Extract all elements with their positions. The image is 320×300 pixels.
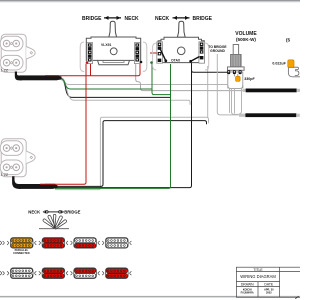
legend label NECK-BRIDGE bbox=[28, 210, 80, 215]
svg-text:OTAX: OTAX bbox=[171, 59, 181, 63]
wire gray bridge shield loop with hook bbox=[55, 117, 209, 189]
legend switch position fan bbox=[39, 214, 69, 229]
wire red stub switch2 left middle bbox=[150, 52, 158, 54]
potentiometer VR2 tone lug plate (clipped at edge) bbox=[286, 38, 299, 76]
wire gray switch1 zigzag to cable bar1 bbox=[136, 64, 246, 91]
legend pickup icon row1 x73 bbox=[71, 238, 100, 249]
svg-text:CONNECTED: CONNECTED bbox=[13, 251, 30, 255]
wire green switch2 down left branch bbox=[152, 63, 171, 95]
svg-text:VLX91: VLX91 bbox=[101, 43, 111, 47]
svg-text:1·ZZ: 1·ZZ bbox=[1, 173, 9, 177]
legend pickup icon row1 x10 bbox=[7, 238, 36, 256]
svg-text:DRAWN: DRAWN bbox=[241, 282, 254, 286]
wire black switch2 to pot lug1 bbox=[192, 70, 229, 72]
switch U1 mounting wings bbox=[80, 42, 147, 72]
svg-text:330pF: 330pF bbox=[244, 77, 255, 81]
label switch2 NECK-BRIDGE bbox=[155, 16, 213, 22]
switch U2 right terminal strip bbox=[199, 42, 205, 63]
top border frame line bbox=[0, 0, 300, 2]
switch U2 OTAX lever bbox=[177, 21, 185, 37]
label switch1 BRIDGE-NECK bbox=[82, 16, 139, 22]
switch U1 VLX91 lever bbox=[109, 21, 117, 37]
svg-text:NECK: NECK bbox=[125, 16, 140, 22]
cable bridge pickup bbox=[12, 176, 57, 189]
wire red jumper switch1 left bbox=[90, 64, 92, 76]
svg-text:(500K-W): (500K-W) bbox=[236, 37, 256, 42]
title block table bbox=[236, 267, 306, 297]
node dots switch terminals bbox=[86, 61, 153, 64]
svg-text:FUJIWARA: FUJIWARA bbox=[241, 292, 254, 295]
svg-text:1·ZZ: 1·ZZ bbox=[1, 69, 9, 73]
title block text bbox=[240, 268, 276, 295]
svg-text:BRIDGE: BRIDGE bbox=[64, 210, 80, 215]
wire red switch1 left to bridge cable bbox=[45, 64, 86, 185]
switch U2 mounting wings bbox=[153, 43, 209, 70]
label volume bbox=[235, 31, 257, 42]
svg-text:NECK: NECK bbox=[28, 210, 40, 215]
switch U1 VLX91 body bbox=[86, 37, 140, 65]
cable shielded bar1 bbox=[242, 89, 300, 93]
cable shielded bar2 bbox=[239, 113, 300, 117]
wire gray neck shield to pot can bbox=[59, 78, 227, 85]
svg-text:BRIDGE: BRIDGE bbox=[82, 16, 102, 22]
switch U1 left terminal strip bbox=[87, 43, 93, 64]
switch U2 OTAX body bbox=[158, 37, 204, 62]
wire black bridge to switch2 terminal bbox=[55, 63, 192, 188]
svg-text:BRIDGE: BRIDGE bbox=[193, 16, 213, 22]
wire green neck to switch2 junction bbox=[59, 78, 152, 89]
switch U1 right terminal strip bbox=[134, 43, 140, 64]
wire red neck to switch1 right terminal bbox=[45, 63, 140, 75]
svg-text:(5: (5 bbox=[286, 38, 291, 43]
legend pickup icon row2 x10 bbox=[7, 268, 36, 279]
svg-text:2003: 2003 bbox=[266, 292, 272, 295]
legend pickup icon row2 x42 bbox=[39, 268, 68, 279]
label to bridge ground bbox=[208, 45, 227, 53]
wire pot can leads to cable bar2 bbox=[230, 88, 247, 114]
svg-text:0.022uF: 0.022uF bbox=[272, 61, 286, 65]
wire to-bridge-ground down to cable bar2 bbox=[217, 54, 238, 115]
svg-text:DATE: DATE bbox=[264, 282, 274, 286]
capacitor C1 330pF bbox=[234, 74, 255, 81]
switch U2 right contact lever bbox=[189, 57, 199, 63]
legend pickup icon row1 col1 (clipped) bbox=[0, 241, 4, 245]
svg-text:GROUND: GROUND bbox=[210, 49, 225, 53]
switch U2 left terminal strip bbox=[157, 42, 163, 63]
legend pickup icon row2 col1 (clipped) bbox=[0, 271, 4, 275]
potentiometer VR1 volume bbox=[227, 45, 244, 89]
svg-text:TITLE: TITLE bbox=[253, 268, 263, 272]
wire black neck to green junction bbox=[59, 78, 170, 97]
legend pickup icon row2 x73 bbox=[71, 268, 100, 279]
pickup bridge bbox=[0, 139, 35, 177]
cable neck pickup bbox=[15, 72, 62, 81]
legend pickup icon row1 x42 bbox=[39, 238, 68, 249]
svg-text:WIRING DIAGRAM: WIRING DIAGRAM bbox=[240, 274, 276, 279]
legend pickup icon row2 x105 bbox=[102, 268, 131, 279]
wire gray switch2 wing down bbox=[207, 66, 209, 117]
wire gray neck long to hook bbox=[59, 79, 190, 105]
page corner mark bbox=[295, 296, 298, 299]
switch U2 left contact lever bbox=[159, 47, 168, 62]
wire black bridge loop with hook bbox=[55, 121, 207, 187]
legend pickup icon row1 x105 bbox=[102, 238, 131, 249]
wire green switch2 down main bbox=[55, 64, 171, 188]
svg-text:NECK: NECK bbox=[155, 16, 170, 22]
capacitor C2 0.022uF bbox=[272, 60, 300, 77]
bottom border frame line bbox=[0, 296, 300, 298]
pickup neck bbox=[0, 34, 35, 72]
